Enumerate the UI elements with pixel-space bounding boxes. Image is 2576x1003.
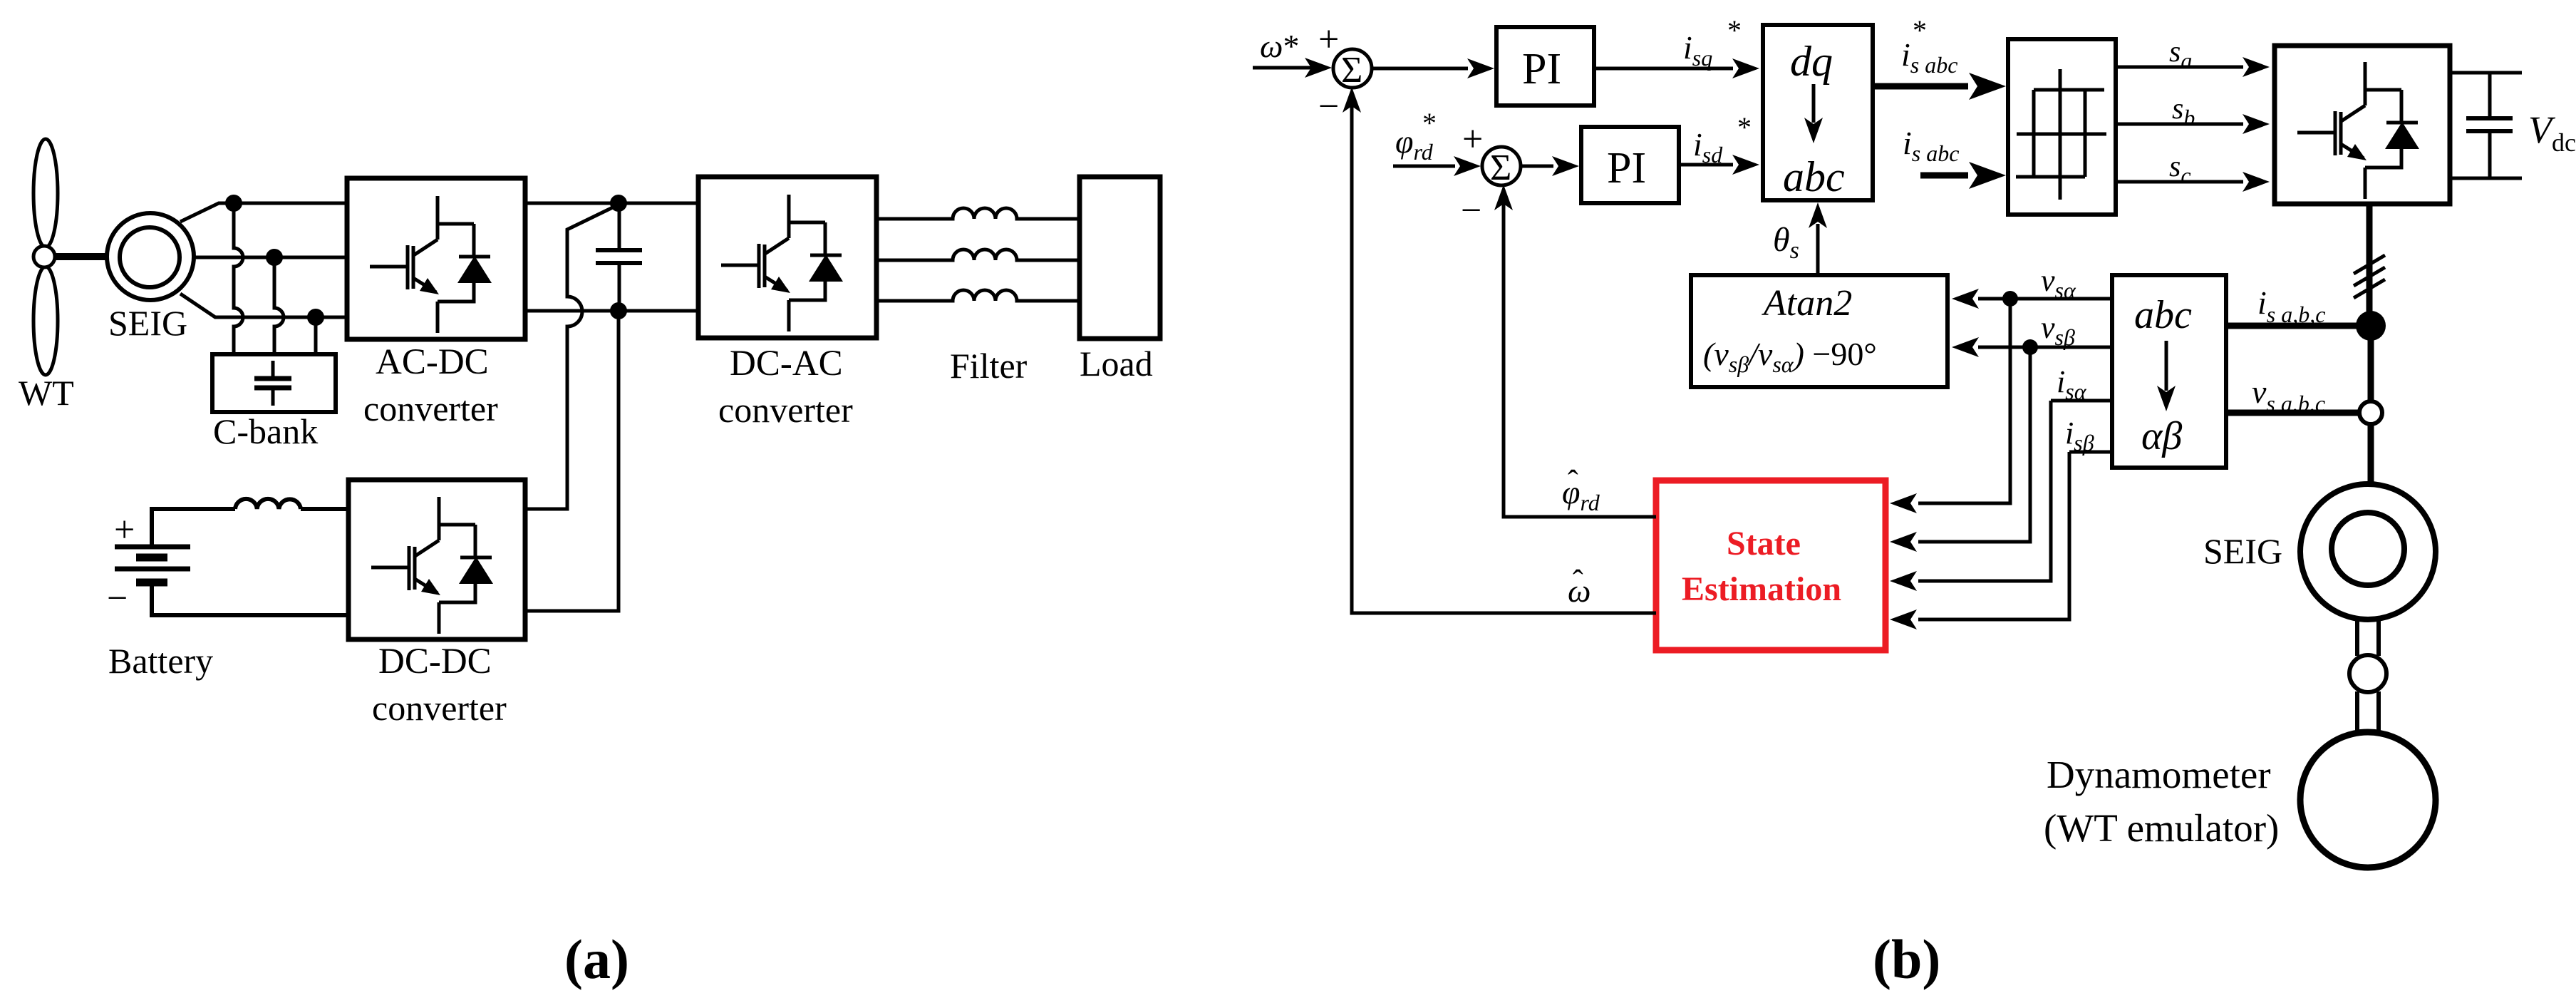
wire isalpha down to State Estimation: [1918, 401, 2051, 581]
wire isalpha stub: [2051, 399, 2112, 403]
svg-text:Filter: Filter: [950, 346, 1028, 386]
svg-text:is abc: is abc: [1901, 36, 1957, 78]
svg-text:Dynamometer: Dynamometer: [2047, 753, 2271, 796]
svg-text:isα: isα: [2057, 364, 2087, 404]
svg-text:sc: sc: [2169, 150, 2191, 188]
svg-text:−: −: [1461, 190, 1481, 231]
wire battery negative to DC-DC converter: [152, 584, 348, 615]
arrow omega star into summing junction 1: [1253, 66, 1311, 70]
svg-text:−: −: [107, 578, 128, 619]
svg-text:Vdc: Vdc: [2528, 108, 2576, 157]
svg-text:(WT emulator): (WT emulator): [2044, 806, 2279, 850]
svg-text:vsβ: vsβ: [2041, 310, 2075, 350]
Load box: [1080, 177, 1160, 339]
svg-text:isd: isd: [1693, 126, 1723, 168]
filter inductor phase c: [876, 290, 1080, 301]
svg-text:θs: θs: [1773, 221, 1799, 264]
thick arrow is*abc from dq-abc to hysteresis block: [1873, 83, 1968, 90]
junction DC bus negative: [610, 302, 627, 319]
svg-text:DC-DC: DC-DC: [378, 642, 492, 681]
wire vs-beta down to State Estimation: [1918, 347, 2030, 542]
svg-text:PI: PI: [1522, 45, 1561, 93]
label is*abc: [1901, 14, 1957, 78]
svg-text:*: *: [1737, 111, 1752, 143]
wire Sb hysteresis to inverter: [2116, 123, 2243, 126]
wind turbine WT blades: [33, 139, 58, 375]
junction node phase B: [266, 249, 283, 266]
shaft coupling to dynamometer: [2357, 691, 2379, 733]
C-bank box: [212, 354, 336, 412]
theta s arrow Atan2 to dq-abc: [1816, 224, 1820, 275]
svg-text:DC-AC: DC-AC: [730, 344, 843, 384]
wire DC-DC bottom output to DC bus negative: [525, 311, 619, 611]
AC-DC converter box: [347, 178, 525, 339]
Vdc capacitor: [2466, 73, 2513, 178]
svg-text:PI: PI: [1607, 144, 1646, 192]
svg-text:sa: sa: [2169, 36, 2192, 73]
DC-AC converter box: [698, 177, 876, 338]
label omega-hat: [1568, 564, 1590, 609]
wire isbeta stub: [2069, 451, 2112, 454]
hysteresis symbol: [2016, 69, 2106, 200]
svg-text:Atan2: Atan2: [1762, 283, 1852, 324]
svg-text:dq: dq: [1790, 38, 1833, 85]
hysteresis comparator box: [2008, 39, 2116, 215]
svg-text:vsα: vsα: [2041, 263, 2076, 303]
svg-text:SEIG: SEIG: [2203, 531, 2282, 571]
svg-text:abc: abc: [1783, 153, 1845, 200]
wire phase A: SEIG to AC-DC converter: [180, 203, 347, 222]
svg-text:abc: abc: [2134, 293, 2192, 337]
wire inductor to DC-DC converter: [301, 507, 348, 511]
junction dot on vs-beta: [2022, 339, 2038, 355]
shaft SEIG to coupling: [2357, 617, 2379, 656]
svg-text:WT: WT: [19, 373, 74, 413]
wire DC bus negative: [525, 309, 698, 313]
thick wire vs a,b,c from abc-alphabeta block: [2226, 410, 2359, 416]
wire vs-alpha to Atan2: [1978, 297, 2112, 301]
junction node phase A: [225, 195, 242, 212]
wire PI box 1 to dq-abc block: [1594, 67, 1733, 71]
svg-text:C-bank: C-bank: [213, 411, 318, 451]
wire C-bank tap 1 with crossover hops: [234, 203, 243, 356]
PI controller box 1: [1496, 27, 1594, 106]
State Estimation box (red): [1656, 480, 1886, 650]
svg-text:Estimation: Estimation: [1682, 570, 1841, 608]
svg-text:AC-DC: AC-DC: [376, 342, 489, 382]
inverter box: [2275, 46, 2450, 204]
svg-text:Σ: Σ: [1341, 50, 1362, 91]
thick three-phase line from inverter down: [2366, 204, 2373, 319]
filter inductor phase a: [876, 208, 1080, 219]
DC-link capacitor: [596, 203, 642, 311]
DC-AC converter IGBT symbol: [721, 195, 843, 331]
thick three-phase line between dot and open node: [2368, 326, 2374, 401]
svg-text:+: +: [114, 510, 135, 550]
svg-text:converter: converter: [363, 389, 498, 428]
svg-text:+: +: [1462, 119, 1483, 160]
label phi-rd-hat: [1562, 464, 1600, 515]
wire phi-rd-hat feedback to summing junction 2: [1504, 204, 1656, 517]
label isd*: [1693, 111, 1752, 168]
wire inverter to Vdc capacitor top: [2450, 71, 2522, 75]
svg-text:converter: converter: [372, 688, 507, 728]
junction dot on vs-alpha: [2002, 291, 2018, 307]
SEIG machine panel b outer circle: [2300, 484, 2436, 619]
wind turbine shaft: [48, 253, 107, 260]
thick arrow is abc into hysteresis block: [1920, 173, 1968, 179]
wire summing junction 1 to PI box 1: [1371, 67, 1468, 71]
svg-text:*: *: [1422, 107, 1437, 139]
coupling circle: [2349, 655, 2386, 692]
junction DC bus positive: [610, 195, 627, 212]
svg-text:isβ: isβ: [2065, 416, 2094, 456]
filter inductor phase b: [876, 250, 1080, 260]
wire C-bank tap 2 with crossover hop: [274, 257, 284, 356]
battery plates: [115, 547, 190, 582]
wire omega-hat feedback to summing junction 1: [1352, 106, 1656, 613]
svg-text:−: −: [1318, 86, 1339, 127]
svg-text:ˆ: ˆ: [1573, 564, 1583, 599]
svg-text:(vsβ/vsα) −90°: (vsβ/vsα) −90°: [1703, 336, 1877, 377]
svg-text:State: State: [1727, 525, 1801, 562]
svg-text:(b): (b): [1873, 928, 1940, 990]
junction node phase C: [307, 309, 324, 326]
SEIG machine panel b inner circle: [2332, 513, 2404, 585]
svg-text:is a,b,c: is a,b,c: [2257, 284, 2325, 327]
dynamometer circle: [2300, 732, 2436, 868]
svg-text:sb: sb: [2172, 93, 2195, 130]
svg-text:(a): (a): [564, 928, 629, 990]
wire battery positive to inductor: [152, 509, 235, 545]
wire DC bus positive: [525, 202, 698, 205]
wire DC-DC top output to DC bus positive (with hop): [525, 205, 617, 509]
generator SEIG inner circle: [120, 227, 180, 287]
wire Sc hysteresis to inverter: [2116, 180, 2243, 184]
svg-text:Load: Load: [1080, 344, 1153, 384]
wind turbine hub: [33, 246, 55, 267]
generator SEIG outer circle: [107, 213, 194, 300]
wire Sa hysteresis to inverter: [2116, 66, 2243, 69]
svg-text:Battery: Battery: [108, 641, 213, 681]
wire phase C: SEIG to AC-DC converter: [180, 294, 347, 317]
svg-text:isq: isq: [1683, 29, 1712, 71]
svg-text:ω*: ω*: [1260, 28, 1299, 64]
svg-text:+: +: [1318, 19, 1339, 60]
wire phase B: SEIG to AC-DC converter: [195, 256, 347, 259]
wire vs-alpha down to State Estimation: [1918, 299, 2010, 503]
inverter IGBT symbol: [2297, 62, 2419, 199]
PI controller box 2: [1581, 127, 1679, 203]
DC-DC converter IGBT symbol: [371, 497, 493, 634]
arrow phi rd star into summing junction 2: [1393, 165, 1455, 168]
wire inverter to Vdc capacitor bottom: [2450, 177, 2522, 180]
inductor L (boost): [235, 499, 301, 509]
open node circle on three-phase line: [2359, 401, 2382, 424]
label isq*: [1683, 14, 1742, 71]
junction filled dot on three-phase line: [2356, 311, 2386, 341]
wire C-bank tap 3: [314, 317, 318, 356]
svg-text:SEIG: SEIG: [108, 303, 187, 343]
thick wire is a,b,c from abc-alphabeta block: [2226, 323, 2371, 329]
summing junction 2: [1482, 147, 1521, 185]
svg-text:Σ: Σ: [1490, 148, 1511, 188]
summing junction 1: [1333, 49, 1372, 88]
three-phase slash marks: [2354, 255, 2385, 298]
svg-text:*: *: [1913, 14, 1927, 46]
C-bank capacitor symbol: [254, 361, 291, 406]
wire summing junction 2 to PI box 2: [1520, 165, 1553, 168]
DC-DC converter box: [348, 480, 525, 639]
AC-DC converter IGBT symbol: [370, 196, 492, 333]
svg-text:is abc: is abc: [1903, 125, 1959, 166]
wire vs-beta to Atan2: [1978, 346, 2112, 349]
Atan2 box: [1691, 275, 1947, 387]
svg-text:αβ: αβ: [2141, 414, 2182, 458]
svg-text:*: *: [1727, 14, 1742, 46]
dq to abc transformation block: [1763, 25, 1873, 200]
wire PI box 2 to dq-abc block: [1679, 163, 1733, 167]
svg-text:ˆ: ˆ: [1568, 464, 1578, 499]
wire isbeta down to State Estimation: [1918, 452, 2069, 619]
svg-text:converter: converter: [718, 390, 853, 430]
thick line open node to SEIG: [2368, 424, 2374, 485]
label phi rd star reference: [1395, 107, 1437, 165]
abc to alphabeta transformation block: [2112, 275, 2226, 468]
